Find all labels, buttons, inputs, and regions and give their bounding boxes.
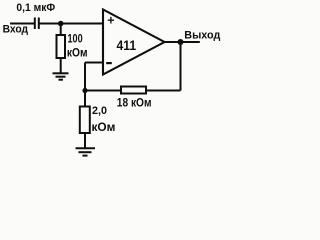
- wire: input left segment: [10, 23, 34, 25]
- wire: feedback riser up to output: [180, 42, 182, 91]
- node A junction dot: [58, 21, 64, 27]
- ground symbol G2: [76, 148, 96, 155]
- op-amp U1 triangle: [103, 10, 165, 75]
- wire: node B down to R3: [84, 91, 86, 108]
- wire: node B right to R2: [85, 90, 121, 92]
- svg-text:100: 100: [68, 34, 83, 46]
- svg-text:кОм: кОм: [67, 46, 88, 60]
- wire: node A down to R1: [60, 24, 62, 37]
- wire: R1 to ground: [60, 58, 62, 73]
- svg-text:кОм: кОм: [92, 120, 116, 134]
- svg-text:+: +: [107, 14, 114, 28]
- node B junction dot: [82, 88, 87, 93]
- svg-text:2,0: 2,0: [92, 105, 107, 117]
- resistor R1 body: [57, 35, 66, 58]
- wire: R2 to feedback riser: [146, 90, 181, 92]
- wire: R3 to ground: [84, 133, 86, 148]
- svg-text:18 кОм: 18 кОм: [117, 95, 152, 109]
- svg-text:Вход: Вход: [3, 23, 29, 35]
- svg-text:0,1 мкФ: 0,1 мкФ: [16, 2, 55, 14]
- svg-text:Выход: Выход: [184, 29, 220, 41]
- ground symbol G1: [53, 73, 69, 79]
- capacitor C1 plates: [35, 18, 39, 30]
- resistor R2 18 kOm body: [121, 87, 146, 94]
- resistor R3 2.0 kOm body: [80, 107, 90, 134]
- wire: output: [165, 41, 200, 43]
- op-amp minus input mark: [106, 62, 112, 64]
- wire: inverting input horizontal: [85, 62, 103, 64]
- wire: capacitor to op-amp + input: [39, 23, 103, 25]
- node OUT junction dot: [178, 39, 184, 45]
- svg-text:411: 411: [117, 37, 137, 53]
- wire: inverting input down to node B: [84, 63, 86, 92]
